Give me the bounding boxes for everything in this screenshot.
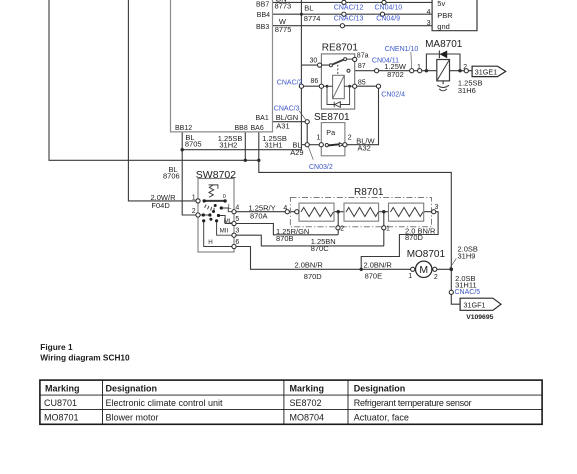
svg-text:PBR: PBR bbox=[437, 11, 453, 20]
svg-text:Refrigerant temperature sensor: Refrigerant temperature sensor bbox=[354, 398, 472, 408]
svg-text:31GE1: 31GE1 bbox=[475, 67, 497, 76]
svg-text:Electronic climate control uni: Electronic climate control unit bbox=[106, 398, 224, 408]
svg-text:87a: 87a bbox=[357, 53, 369, 60]
svg-text:BA1: BA1 bbox=[256, 115, 269, 122]
svg-text:BB3: BB3 bbox=[256, 24, 269, 31]
svg-text:31GF1: 31GF1 bbox=[464, 300, 486, 309]
svg-text:BA6: BA6 bbox=[251, 125, 264, 132]
svg-text:4: 4 bbox=[235, 205, 239, 212]
svg-text:Blower motor: Blower motor bbox=[106, 413, 159, 423]
svg-text:RE8701: RE8701 bbox=[322, 43, 359, 54]
svg-text:CNEN1/10: CNEN1/10 bbox=[385, 46, 419, 53]
svg-text:A32: A32 bbox=[358, 143, 371, 152]
svg-text:3: 3 bbox=[435, 204, 439, 211]
svg-text:R8701: R8701 bbox=[354, 187, 384, 198]
svg-text:Actuator, face: Actuator, face bbox=[354, 413, 409, 423]
svg-text:CU8701: CU8701 bbox=[44, 398, 77, 408]
svg-text:Figure 1: Figure 1 bbox=[40, 342, 73, 352]
svg-text:gnd: gnd bbox=[437, 22, 450, 31]
svg-text:8773: 8773 bbox=[275, 1, 292, 10]
svg-text:BB12: BB12 bbox=[175, 125, 192, 132]
svg-text:0: 0 bbox=[223, 194, 226, 200]
svg-text:870D: 870D bbox=[304, 272, 323, 281]
svg-text:ML: ML bbox=[224, 219, 233, 225]
svg-text:MO8701: MO8701 bbox=[407, 249, 446, 260]
svg-text:MII: MII bbox=[220, 227, 229, 234]
svg-text:SE8702: SE8702 bbox=[290, 398, 322, 408]
svg-text:L: L bbox=[228, 203, 232, 210]
svg-text:SW8702: SW8702 bbox=[196, 169, 236, 181]
svg-text:V109695: V109695 bbox=[466, 314, 493, 321]
svg-text:M: M bbox=[419, 264, 428, 276]
svg-text:8774: 8774 bbox=[304, 14, 321, 23]
svg-text:1: 1 bbox=[417, 64, 421, 71]
svg-text:CN02/4: CN02/4 bbox=[381, 91, 405, 98]
svg-text:2: 2 bbox=[434, 274, 438, 281]
svg-text:31H2: 31H2 bbox=[219, 141, 237, 150]
svg-text:4: 4 bbox=[427, 9, 431, 16]
svg-text:870B: 870B bbox=[276, 234, 294, 243]
svg-text:31H6: 31H6 bbox=[458, 86, 476, 95]
svg-text:H: H bbox=[208, 239, 212, 246]
svg-text:A31: A31 bbox=[276, 121, 289, 130]
svg-text:BB8: BB8 bbox=[235, 125, 248, 132]
svg-text:87: 87 bbox=[358, 63, 366, 70]
svg-text:CN03/2: CN03/2 bbox=[309, 164, 333, 171]
svg-text:8705: 8705 bbox=[185, 139, 202, 148]
svg-text:2: 2 bbox=[348, 134, 352, 141]
svg-text:CNAC/2: CNAC/2 bbox=[277, 79, 303, 86]
svg-text:1: 1 bbox=[408, 273, 412, 280]
svg-text:2.0BN/R: 2.0BN/R bbox=[295, 261, 324, 270]
svg-text:8706: 8706 bbox=[163, 171, 180, 180]
svg-text:BB4: BB4 bbox=[257, 12, 270, 19]
svg-text:MO8704: MO8704 bbox=[290, 413, 325, 423]
svg-text:Designation: Designation bbox=[354, 383, 406, 393]
svg-text:MA8701: MA8701 bbox=[425, 39, 463, 50]
svg-text:2: 2 bbox=[340, 226, 344, 233]
svg-text:6: 6 bbox=[235, 239, 239, 246]
svg-text:5: 5 bbox=[235, 216, 239, 223]
svg-text:1: 1 bbox=[386, 226, 390, 233]
svg-text:3: 3 bbox=[427, 20, 431, 27]
svg-text:8775: 8775 bbox=[275, 25, 292, 34]
svg-text:Pa: Pa bbox=[326, 128, 335, 137]
svg-text:870A: 870A bbox=[250, 212, 268, 221]
svg-text:2: 2 bbox=[192, 208, 196, 215]
svg-text:30: 30 bbox=[310, 58, 318, 65]
svg-text:85: 85 bbox=[358, 79, 366, 86]
svg-text:BL: BL bbox=[304, 4, 313, 13]
svg-text:F04D: F04D bbox=[151, 201, 170, 210]
svg-text:31H1: 31H1 bbox=[265, 141, 283, 150]
svg-text:CNAC/5: CNAC/5 bbox=[455, 289, 481, 296]
svg-text:2: 2 bbox=[463, 64, 467, 71]
svg-text:MO8701: MO8701 bbox=[44, 413, 79, 423]
svg-text:2.0BN/R: 2.0BN/R bbox=[364, 261, 393, 270]
svg-text:870D: 870D bbox=[405, 233, 424, 242]
svg-text:CNAC/3: CNAC/3 bbox=[274, 106, 300, 113]
svg-text:31H9: 31H9 bbox=[458, 252, 476, 261]
svg-text:BB7: BB7 bbox=[256, 2, 269, 9]
svg-text:5v: 5v bbox=[437, 0, 445, 8]
svg-text:CNAC/12: CNAC/12 bbox=[334, 5, 364, 12]
svg-text:4: 4 bbox=[283, 205, 287, 212]
svg-text:Wiring diagram SCH10: Wiring diagram SCH10 bbox=[40, 352, 130, 362]
svg-text:8702: 8702 bbox=[387, 70, 404, 79]
svg-text:Marking: Marking bbox=[45, 383, 80, 393]
svg-text:CNAC/13: CNAC/13 bbox=[334, 16, 364, 23]
svg-text:3: 3 bbox=[235, 228, 239, 235]
svg-text:CN04/9: CN04/9 bbox=[376, 16, 400, 23]
svg-text:1: 1 bbox=[317, 134, 321, 141]
svg-text:Marking: Marking bbox=[290, 383, 325, 393]
svg-text:1: 1 bbox=[192, 194, 196, 201]
svg-text:SE8701: SE8701 bbox=[314, 112, 350, 123]
svg-text:CN04/10: CN04/10 bbox=[375, 5, 403, 12]
svg-text:870C: 870C bbox=[311, 244, 330, 253]
svg-text:86: 86 bbox=[311, 78, 319, 85]
svg-text:A29: A29 bbox=[290, 148, 303, 157]
svg-text:870E: 870E bbox=[365, 271, 383, 280]
svg-text:Designation: Designation bbox=[106, 383, 158, 393]
